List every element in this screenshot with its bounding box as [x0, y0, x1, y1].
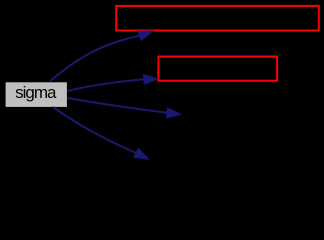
node box1 (red, truncated)	[116, 6, 319, 31]
arrowhead A3	[166, 108, 180, 118]
wire A1	[50, 36, 140, 82]
wire A4	[53, 107, 136, 153]
node box2 (red, truncated)	[158, 57, 277, 81]
arrowhead A1	[138, 31, 153, 41]
wire A2	[67, 79, 143, 91]
arrowhead A2	[143, 74, 157, 84]
arrowhead A4	[134, 148, 149, 159]
wire A3	[67, 98, 166, 113]
node sigma (current, grey fill)	[6, 82, 67, 107]
svg-text:sigma: sigma	[15, 83, 57, 102]
